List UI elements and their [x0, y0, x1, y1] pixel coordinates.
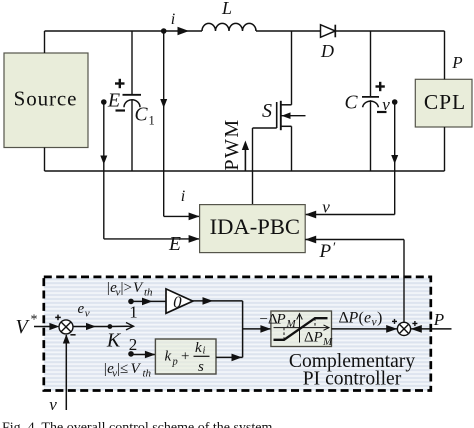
wire source top lead: [44, 31, 46, 53]
dashed guides: [283, 328, 285, 340]
svg-text:+: +: [181, 349, 189, 365]
PI controller block: [155, 339, 216, 375]
plus sign of E: [115, 82, 125, 84]
svg-text:′: ′: [333, 241, 336, 256]
svg-text:C: C: [135, 105, 149, 126]
minus sign of v: [377, 111, 387, 113]
wire top rail segment 1 (source to inductor): [45, 30, 203, 32]
wire contact1 to zero gain: [131, 298, 166, 306]
IDA-PBC block U1: [200, 205, 306, 253]
wire top rail segment 2 (inductor to diode): [256, 30, 321, 32]
saturation block: [260, 311, 334, 348]
wire merge line to saturation: [243, 301, 271, 358]
svg-text:k: k: [195, 340, 202, 356]
wire contact2 to PI block: [131, 351, 155, 359]
op-amp style zero gain block: [166, 289, 193, 313]
svg-text:K: K: [106, 330, 122, 352]
svg-text:k: k: [165, 349, 172, 365]
svg-text:0: 0: [173, 292, 182, 311]
body arrow: [282, 115, 306, 117]
svg-text:th: th: [144, 287, 153, 299]
axes: [299, 314, 301, 343]
switch K pivot: [106, 323, 134, 352]
CPL box: [415, 79, 472, 127]
svg-text:|>: |>: [121, 280, 132, 296]
wire E measurement to IDA-PBC: [100, 102, 199, 255]
svg-text:*: *: [31, 313, 38, 328]
svg-text:L: L: [221, 0, 232, 18]
svg-text:E: E: [107, 90, 120, 112]
svg-text:v: v: [322, 198, 330, 217]
svg-text:P: P: [313, 330, 323, 346]
drain lead: [291, 31, 293, 105]
svg-text:1: 1: [129, 303, 138, 322]
wire source bottom lead: [44, 148, 46, 172]
capacitor C1: [107, 31, 155, 171]
node contact 2: [103, 335, 152, 380]
svg-text:p: p: [172, 357, 178, 368]
svg-text:M: M: [322, 336, 333, 348]
wire bottom rail: [45, 170, 445, 172]
gate lead: [253, 127, 277, 129]
svg-text:Δ: Δ: [339, 310, 349, 327]
svg-text:PI controller: PI controller: [303, 368, 402, 389]
plus sign of v: [376, 85, 385, 87]
svg-text:e: e: [78, 301, 85, 317]
wire PWM from IDA-PBC to gate: [221, 118, 253, 204]
node contact 1: [106, 280, 153, 322]
minus sign of E: [116, 109, 126, 111]
wire CPL bottom lead: [444, 127, 446, 171]
diode D: [320, 25, 335, 61]
wire PI output to merge: [216, 354, 243, 362]
svg-text:IDA-PBC: IDA-PBC: [210, 214, 300, 239]
wire v feedback into summing junction 1: [49, 334, 70, 414]
svg-text:V: V: [16, 316, 31, 338]
source lead: [281, 125, 292, 127]
wire e_v to switch pivot: [73, 301, 110, 330]
wire top rail segment 3 (diode to CPL corner): [335, 30, 444, 32]
wire zero gain output to merge: [192, 297, 242, 305]
svg-text:e: e: [364, 310, 371, 327]
node V* input: [16, 313, 60, 339]
svg-text:Source: Source: [14, 87, 78, 111]
svg-text:P: P: [433, 310, 444, 329]
svg-text:|≤: |≤: [117, 361, 128, 377]
inductor L: [202, 0, 256, 31]
svg-text:i: i: [181, 188, 185, 205]
wire CPL top lead: [444, 31, 446, 79]
summing junction 2: [392, 319, 417, 336]
svg-text:P: P: [451, 53, 462, 72]
svg-text:PWM: PWM: [221, 118, 243, 170]
transistor S (MOSFET switch): [253, 31, 306, 171]
svg-text:i: i: [203, 346, 206, 357]
wire saturation output to summing junction 2: [332, 310, 398, 333]
svg-text:s: s: [198, 359, 204, 375]
svg-text:Δ: Δ: [304, 330, 314, 346]
svg-text:th: th: [143, 368, 152, 380]
wire P' feedback into IDA-PBC: [305, 236, 404, 323]
svg-text:D: D: [320, 41, 334, 61]
svg-text:v: v: [85, 308, 90, 320]
svg-text:1: 1: [149, 114, 155, 128]
svg-text:): ): [377, 310, 382, 327]
svg-text:M: M: [286, 318, 297, 330]
svg-text:E: E: [168, 234, 181, 255]
saturation curve: [274, 318, 328, 340]
node P input: [411, 310, 452, 333]
svg-text:P: P: [319, 241, 332, 262]
node input junction: [161, 28, 167, 34]
label Complementary PI controller: [289, 351, 415, 390]
capacitor C: [344, 31, 390, 171]
wire v measurement to IDA-PBC: [305, 102, 398, 218]
node E sense: [101, 99, 107, 105]
svg-text:P: P: [348, 310, 359, 327]
svg-text:v: v: [49, 395, 57, 414]
channel bar: [280, 101, 282, 130]
svg-text:P: P: [276, 312, 286, 328]
svg-text:CPL: CPL: [424, 90, 466, 114]
svg-text:−Δ: −Δ: [260, 312, 278, 328]
svg-text:i: i: [171, 11, 175, 28]
node v sense: [392, 99, 398, 105]
current arrow i on top rail: [171, 11, 189, 35]
Source box: [4, 53, 88, 148]
svg-text:2: 2: [129, 335, 138, 354]
svg-text:S: S: [262, 100, 272, 122]
summing junction 1: [55, 315, 75, 335]
svg-text:Fig. 4. The overall control sc: Fig. 4. The overall control scheme of th…: [2, 421, 276, 428]
gate bar: [276, 102, 278, 128]
svg-text:C: C: [344, 93, 358, 114]
wire i measurement to IDA-PBC: [160, 31, 199, 220]
